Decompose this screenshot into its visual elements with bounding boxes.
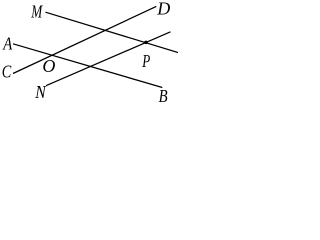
- svg-text:P: P: [142, 51, 151, 71]
- svg-text:C: C: [2, 61, 12, 81]
- svg-text:D: D: [156, 0, 170, 19]
- node P dot: [144, 41, 148, 45]
- svg-text:N: N: [34, 82, 46, 102]
- svg-text:B: B: [159, 86, 168, 103]
- wire ray from N through P: [46, 32, 171, 86]
- svg-text:M: M: [30, 1, 42, 21]
- wire line C-O-D: [13, 6, 156, 73]
- svg-text:A: A: [2, 33, 13, 53]
- wire ray from M through P: [46, 12, 179, 52]
- geometry figure: lines AB and CD crossing at O, ray from M and ray from N crossing at P: [0, 0, 178, 103]
- wire line A-O-B: [13, 44, 162, 88]
- svg-text:O: O: [42, 56, 55, 76]
